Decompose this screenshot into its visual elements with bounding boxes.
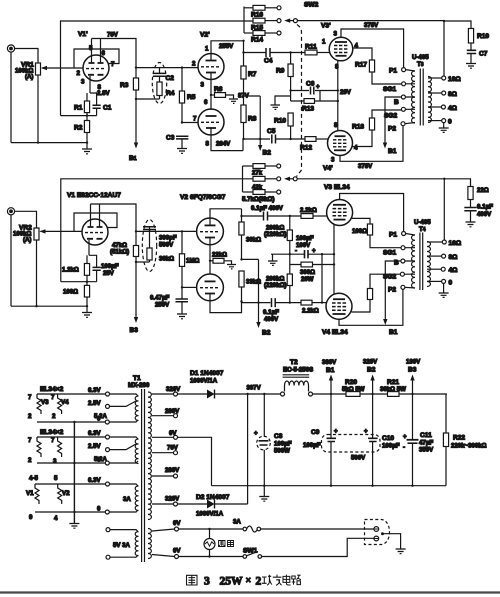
- plate-supply vertical ch1: [243, 41, 245, 66]
- C6 line: [291, 90, 338, 92]
- V4' plate line to P2: [340, 126, 403, 162]
- svg-text:R21: R21: [387, 379, 399, 386]
- node cathode link a: [333, 253, 335, 255]
- svg-text:6: 6: [102, 50, 106, 57]
- terminal 0 g3: [105, 510, 109, 514]
- svg-text:16Ω: 16Ω: [449, 240, 462, 247]
- svg-text:B1: B1: [326, 367, 335, 374]
- resistor R8: [241, 105, 246, 139]
- svg-text:C4: C4: [264, 58, 273, 65]
- supply arrow B2 ch2: [256, 259, 260, 328]
- svg-text:R16: R16: [251, 12, 263, 19]
- resistor 22k: [210, 258, 232, 264]
- svg-text:V1: V1: [26, 490, 34, 497]
- feedback wire ch2 NFB rail: [61, 179, 253, 282]
- filament V1 heater: [35, 484, 39, 504]
- svg-text:R17: R17: [355, 62, 367, 69]
- supply arrow B3: [135, 262, 137, 320]
- node bias mid: [289, 253, 291, 255]
- heater line 0 g1: [37, 421, 105, 423]
- contact circle nfb2: [277, 177, 281, 181]
- contact circle nfb3: [277, 190, 281, 194]
- ground 0.47uF: [177, 314, 187, 319]
- wire grid line V1 plate to V2 grid: [136, 230, 197, 232]
- svg-text:×: ×: [246, 575, 252, 586]
- node cathode R13: [337, 100, 339, 102]
- svg-text:SG1: SG1: [383, 86, 397, 93]
- svg-text:EL34×2: EL34×2: [40, 386, 64, 393]
- node R5 top: [181, 66, 183, 68]
- node C4 tap: [242, 51, 244, 53]
- svg-text:6: 6: [204, 99, 208, 106]
- svg-text:3A: 3A: [233, 519, 241, 526]
- V3 plate bar: [333, 204, 346, 206]
- svg-text:2.2kΩ: 2.2kΩ: [302, 308, 319, 315]
- svg-text:0.1μF: 0.1μF: [477, 204, 493, 211]
- svg-text:+: +: [364, 428, 368, 435]
- feedback wire ch1 (NFB rail): [61, 21, 255, 116]
- ground rail channel1: [11, 142, 87, 144]
- svg-text:2.8V: 2.8V: [97, 90, 110, 97]
- svg-text:SG2: SG2: [384, 113, 398, 120]
- label lamp (zhao ming): [219, 541, 234, 547]
- T4 tap 8 ohm: [427, 254, 446, 258]
- wire 0 g3 winding stub: [109, 510, 138, 512]
- node 22k tap: [209, 260, 211, 262]
- svg-text:2: 2: [77, 70, 81, 77]
- node bias link top: [321, 253, 323, 255]
- node B1 tap: [330, 393, 332, 395]
- B+ line after choke: [313, 393, 347, 395]
- svg-text:350V: 350V: [419, 447, 434, 454]
- svg-text:(220kΩ): (220kΩ): [264, 282, 287, 289]
- T1 HV winding: [148, 392, 151, 520]
- svg-text:3: 3: [53, 458, 57, 465]
- svg-text:29V: 29V: [340, 89, 352, 96]
- potentiometer VR1: [36, 63, 41, 143]
- V2' upper grid dashes: [201, 66, 219, 68]
- mains line top right: [261, 528, 374, 530]
- supply arrow B2 ch1: [258, 96, 262, 151]
- switch SW1: [243, 552, 262, 559]
- fuse: [243, 526, 261, 532]
- lamp feed: [209, 529, 211, 539]
- svg-text:B2: B2: [367, 367, 376, 374]
- tap 70V: [152, 451, 178, 455]
- node D join: [246, 393, 248, 395]
- tube V3 prime: [329, 37, 353, 61]
- wire 0 g2 winding stub: [109, 461, 138, 463]
- wire 0V CT to common: [178, 437, 212, 485]
- V1 grid dashes: [85, 232, 103, 234]
- svg-text:25W: 25W: [220, 575, 244, 587]
- capacitor C4: [244, 48, 306, 57]
- svg-text:7: 7: [28, 437, 32, 444]
- tube V2 prime lower triode: [198, 109, 224, 135]
- svg-text:EC-5-250S: EC-5-250S: [283, 367, 313, 374]
- node R5 bottom: [181, 121, 183, 123]
- C10 feed: [372, 394, 374, 438]
- ground stub bias: [268, 254, 278, 265]
- svg-text:27k: 27k: [252, 170, 263, 177]
- wire cathode bottom junction: [61, 115, 97, 117]
- svg-text:P2: P2: [388, 287, 396, 294]
- svg-text:380V: 380V: [322, 359, 337, 366]
- capacitor C6: [311, 87, 314, 95]
- svg-text:T2: T2: [290, 359, 298, 366]
- V4 plate line to P2 ch2: [339, 289, 403, 325]
- V4 screen lead: [352, 300, 371, 313]
- contact circle R15: [277, 19, 281, 23]
- coupling capacitor 0.1uF lower: [272, 298, 302, 307]
- tube V2 upper triode: [197, 218, 224, 245]
- svg-text:8: 8: [206, 141, 210, 148]
- ground stub mid ch1: [271, 96, 291, 109]
- svg-text:C8: C8: [274, 433, 283, 440]
- mains line bottom: [179, 556, 244, 558]
- resistor R18: [369, 110, 401, 130]
- dashed ellipse around C2 R4: [152, 63, 166, 104]
- B tap wire ch2: [385, 261, 401, 322]
- svg-text:P1: P1: [389, 68, 397, 75]
- V2 upper grid dashes: [200, 231, 218, 233]
- svg-text:0: 0: [448, 119, 452, 126]
- switch SW3 wiper: [284, 177, 297, 181]
- svg-text:MX-280: MX-280: [128, 382, 150, 389]
- terminal SG2 ch2: [400, 272, 404, 276]
- ground C7: [466, 64, 476, 69]
- V3' plate bar: [335, 41, 347, 43]
- svg-text:+: +: [254, 430, 258, 437]
- terminal 0 g1: [105, 420, 109, 424]
- contact circle R14: [277, 31, 281, 35]
- svg-text:EL34×2: EL34×2: [40, 429, 64, 436]
- plug earth pin: [381, 532, 384, 535]
- tube V4 prime: [328, 131, 353, 156]
- svg-text:8Ω: 8Ω: [449, 254, 459, 261]
- node 1M bottom: [181, 286, 183, 288]
- supply arrow B1 ch2: [383, 319, 387, 325]
- diode D1: [207, 390, 248, 399]
- svg-text:100μF: 100μF: [303, 442, 321, 449]
- svg-text:0.1μF: 0.1μF: [263, 309, 279, 316]
- svg-text:T3: T3: [417, 61, 424, 68]
- capacitor C7: [467, 50, 476, 63]
- wire 100ohm to rail: [86, 297, 88, 312]
- V2 lower plate bar: [205, 280, 216, 282]
- node heater bus g2: [73, 462, 75, 464]
- svg-text:T4: T4: [419, 226, 426, 233]
- VR1 wiper arrow: [42, 67, 83, 69]
- svg-text:2.2kΩ: 2.2kΩ: [300, 207, 317, 214]
- svg-text:R12: R12: [300, 145, 312, 152]
- resistor 47k anode load: [133, 246, 138, 257]
- terminal P2: [401, 122, 405, 126]
- V3' cathode bar: [336, 55, 347, 57]
- svg-text:B3: B3: [130, 327, 139, 334]
- svg-text:1000V/1A: 1000V/1A: [190, 378, 218, 385]
- V1' cathode lead: [89, 76, 91, 93]
- choke terminal left: [281, 392, 285, 396]
- wire 6.3V g1 winding stub: [110, 394, 139, 396]
- svg-text:R13: R13: [302, 106, 314, 113]
- svg-text:SW1: SW1: [243, 548, 258, 555]
- svg-text:22Ω: 22Ω: [477, 187, 489, 194]
- svg-text:-: -: [295, 248, 297, 255]
- svg-text:0V: 0V: [173, 520, 181, 527]
- resistor R15: [253, 18, 277, 23]
- capacitor C1: [93, 105, 101, 115]
- supply arrow B1 out: [383, 143, 387, 149]
- resistor 100 ohm: [84, 285, 89, 297]
- mains line bottom right: [262, 538, 374, 556]
- node B2 on lower line: [257, 301, 259, 303]
- svg-text:R11: R11: [305, 44, 317, 51]
- V2' lower cathode run to B2 node: [211, 129, 243, 151]
- supply arrow B1: [135, 99, 137, 146]
- svg-text:5kΩ 5W: 5kΩ 5W: [342, 386, 365, 393]
- T1 heater winding 5V: [135, 532, 138, 556]
- T1 heater winding g1: [135, 396, 138, 420]
- svg-text:500V: 500V: [159, 242, 174, 249]
- T1 mains winding: [148, 529, 151, 559]
- node R7 R8 junction: [242, 95, 244, 97]
- T4 primary winding: [412, 235, 415, 288]
- svg-text:B2: B2: [262, 330, 271, 337]
- tap 320V b: [152, 502, 178, 506]
- V3' plate line to P1: [341, 29, 404, 68]
- resistor 33k chain: [239, 271, 244, 302]
- NFB pickup wire 16 ohm: [443, 21, 445, 76]
- bottom border: [0, 591, 500, 593]
- common bus line: [212, 485, 447, 487]
- svg-text:5V 3A: 5V 3A: [113, 542, 131, 549]
- svg-text:1.2kΩ: 1.2kΩ: [62, 267, 79, 274]
- node R2 rail: [86, 141, 88, 143]
- V1 cathode bars: [87, 238, 103, 240]
- node R10 bottom: [289, 138, 291, 140]
- terminal 6.3V g1: [106, 392, 110, 396]
- capacitor 100uF 25V: [93, 267, 101, 281]
- ground C8: [259, 497, 269, 502]
- svg-text:6.3V: 6.3V: [88, 430, 101, 437]
- svg-text:B3: B3: [408, 367, 417, 374]
- svg-text:5: 5: [89, 45, 93, 52]
- heater line 0 g2: [37, 462, 105, 464]
- capacitor 0.1uF ch2 out: [464, 208, 476, 222]
- terminal B ch2: [401, 259, 405, 263]
- svg-text:(A): (A): [25, 74, 33, 81]
- can capacitor C9 C10 outline: [322, 435, 381, 453]
- terminal 2.5V g2: [106, 448, 110, 452]
- resistor 30k in ellipse: [147, 248, 152, 262]
- resistor 2.2k lower: [301, 300, 326, 305]
- terminal P1 ch2: [402, 232, 406, 236]
- node 255V rail join: [242, 40, 244, 42]
- svg-text:R2: R2: [74, 125, 83, 132]
- svg-text:B1: B1: [129, 155, 137, 162]
- svg-text:4Ω: 4Ω: [449, 267, 459, 274]
- T3 secondary tap 8 ohm: [428, 91, 446, 95]
- svg-text:R22: R22: [453, 435, 465, 442]
- node 100ohm rail: [86, 305, 88, 307]
- resistor R4: [157, 82, 162, 99]
- svg-text:79V: 79V: [107, 32, 119, 39]
- svg-text:70V: 70V: [167, 445, 179, 452]
- svg-text:D1 1N4007: D1 1N4007: [190, 370, 224, 377]
- svg-text:250V: 250V: [155, 302, 170, 309]
- terminal 6.3V g3: [106, 482, 110, 486]
- node NFB rail R19: [443, 20, 445, 22]
- svg-text:2: 2: [28, 413, 32, 420]
- resistor 30k chain: [239, 222, 244, 259]
- svg-text:R18: R18: [352, 124, 364, 131]
- coupling line C5: [244, 138, 271, 140]
- svg-text:3: 3: [334, 31, 338, 38]
- mains terminal 0V b: [175, 555, 179, 559]
- svg-text:R7: R7: [248, 71, 257, 78]
- svg-text:100V: 100V: [296, 242, 311, 249]
- wire 2.5V g2 winding stub: [110, 444, 137, 450]
- arrow B2 ps: [370, 375, 374, 395]
- resistor R12: [305, 137, 328, 142]
- V1' plate bars: [89, 62, 104, 64]
- V3' grid dashes: [334, 46, 347, 53]
- svg-text:V2': V2': [200, 32, 210, 39]
- svg-text:320V: 320V: [166, 386, 181, 393]
- svg-text:C5: C5: [267, 128, 276, 135]
- svg-text:V4: V4: [61, 399, 69, 406]
- wire 6.3V g3 winding stub: [110, 484, 139, 486]
- V4 plate bar: [333, 313, 346, 315]
- svg-text:100μF: 100μF: [296, 235, 314, 242]
- svg-text:C3: C3: [166, 135, 175, 142]
- svg-text:100Ω: 100Ω: [63, 289, 78, 296]
- ground ch2 input: [82, 313, 92, 318]
- svg-text:R3: R3: [120, 82, 129, 89]
- resistor R11: [305, 50, 330, 55]
- ground T4 secondary: [439, 283, 449, 297]
- V4 grid dashes: [332, 303, 346, 310]
- svg-text:4·5: 4·5: [29, 475, 39, 482]
- svg-text:0.47μF: 0.47μF: [150, 295, 170, 302]
- tube V4 EL34: [326, 293, 352, 319]
- svg-text:30kΩ: 30kΩ: [246, 237, 261, 244]
- svg-text:V4': V4': [323, 165, 333, 172]
- T3 core: [420, 69, 423, 126]
- svg-text:R8: R8: [248, 116, 257, 123]
- T3 secondary winding: [428, 77, 431, 123]
- ground heater bus: [69, 524, 79, 529]
- T3 secondary tap 0: [428, 119, 446, 123]
- wire 5V a: [110, 530, 138, 532]
- node grid junction ch1: [135, 66, 137, 68]
- svg-text:220k~300kΩ: 220k~300kΩ: [451, 443, 487, 450]
- svg-text:500V: 500V: [351, 455, 366, 462]
- ground plug earth: [396, 549, 406, 554]
- svg-text:2: 2: [256, 575, 262, 587]
- dashed switch linkage SW2-SW3: [297, 25, 302, 177]
- capacitor C5: [272, 135, 305, 144]
- svg-text:397V: 397V: [247, 385, 262, 392]
- V4 cathode bar: [333, 298, 345, 300]
- svg-text:R19: R19: [477, 33, 489, 40]
- capacitor C3: [176, 136, 188, 148]
- svg-text:400V: 400V: [264, 316, 279, 323]
- svg-text:R5: R5: [187, 94, 196, 101]
- node VR2 bottom: [35, 305, 37, 307]
- svg-text:47μF: 47μF: [419, 440, 434, 447]
- svg-text:+: +: [312, 248, 316, 255]
- svg-text:6.3V: 6.3V: [88, 387, 101, 394]
- resistor R5: [179, 68, 184, 123]
- svg-text:B: B: [394, 99, 399, 106]
- V2 upper plate bar: [205, 224, 216, 226]
- svg-text:T1: T1: [133, 375, 141, 382]
- caption char gong: [262, 575, 272, 585]
- resistor R13: [304, 99, 315, 104]
- wire NFB rail to 22 ohm: [444, 179, 470, 187]
- svg-text:4Ω: 4Ω: [448, 105, 458, 112]
- terminal P2 ch2: [401, 285, 405, 289]
- resistor R14: [244, 31, 277, 36]
- svg-text:1: 1: [322, 39, 326, 46]
- terminal 5V a: [106, 528, 110, 532]
- terminal SG1: [402, 82, 406, 86]
- node 47k bottom: [135, 261, 137, 263]
- T3 secondary tap 4 ohm: [428, 105, 445, 109]
- svg-text:V3 EL34: V3 EL34: [324, 184, 350, 191]
- heater common bus: [73, 422, 75, 523]
- V2' lower plate bar: [206, 115, 217, 117]
- V2 upper cathode bar: [205, 237, 215, 239]
- resistor nfb2 on rail: [253, 176, 276, 181]
- svg-text:3A: 3A: [123, 496, 131, 503]
- wire 397V to choke: [248, 393, 281, 395]
- node C8 bus: [263, 485, 265, 487]
- svg-text:C7: C7: [479, 51, 488, 58]
- V3 cathode bar: [334, 219, 346, 221]
- svg-text:5.7kΩ(8kΩ): 5.7kΩ(8kΩ): [242, 196, 274, 203]
- svg-text:+: +: [403, 434, 407, 441]
- tube V2 lower triode: [197, 274, 224, 301]
- svg-text:V2 6FQ7/6CG7: V2 6FQ7/6CG7: [180, 194, 226, 201]
- svg-text:100μF: 100μF: [382, 443, 400, 450]
- node coupling tap ch2: [240, 215, 242, 217]
- wire B1 node to R4: [136, 98, 160, 100]
- ground T3 secondary: [439, 123, 449, 133]
- V1' grid dashes: [86, 68, 104, 70]
- svg-text:2.5V: 2.5V: [88, 443, 101, 450]
- T4 primary connect stubs: [404, 234, 415, 289]
- svg-text:1: 1: [205, 46, 209, 53]
- svg-text:R14: R14: [251, 37, 263, 44]
- resistor 100 ohm screen: [367, 224, 401, 248]
- V2 upper plate lead to rail: [210, 209, 242, 225]
- svg-text:7: 7: [111, 61, 115, 68]
- node cathode link b: [333, 263, 335, 265]
- svg-text:V1': V1': [78, 31, 88, 38]
- svg-text:V2: V2: [62, 490, 70, 497]
- ground rail channel2: [11, 305, 87, 307]
- svg-text:320V: 320V: [363, 359, 378, 366]
- svg-text:30kΩ: 30kΩ: [159, 256, 174, 263]
- T4 tap 0: [427, 279, 446, 283]
- resistor 300 ohm 20W: [301, 262, 313, 267]
- svg-text:0V: 0V: [173, 548, 181, 555]
- svg-text:(51kΩ): (51kΩ): [110, 249, 129, 256]
- wire grid line V1' plate to V2' grid: [136, 67, 198, 69]
